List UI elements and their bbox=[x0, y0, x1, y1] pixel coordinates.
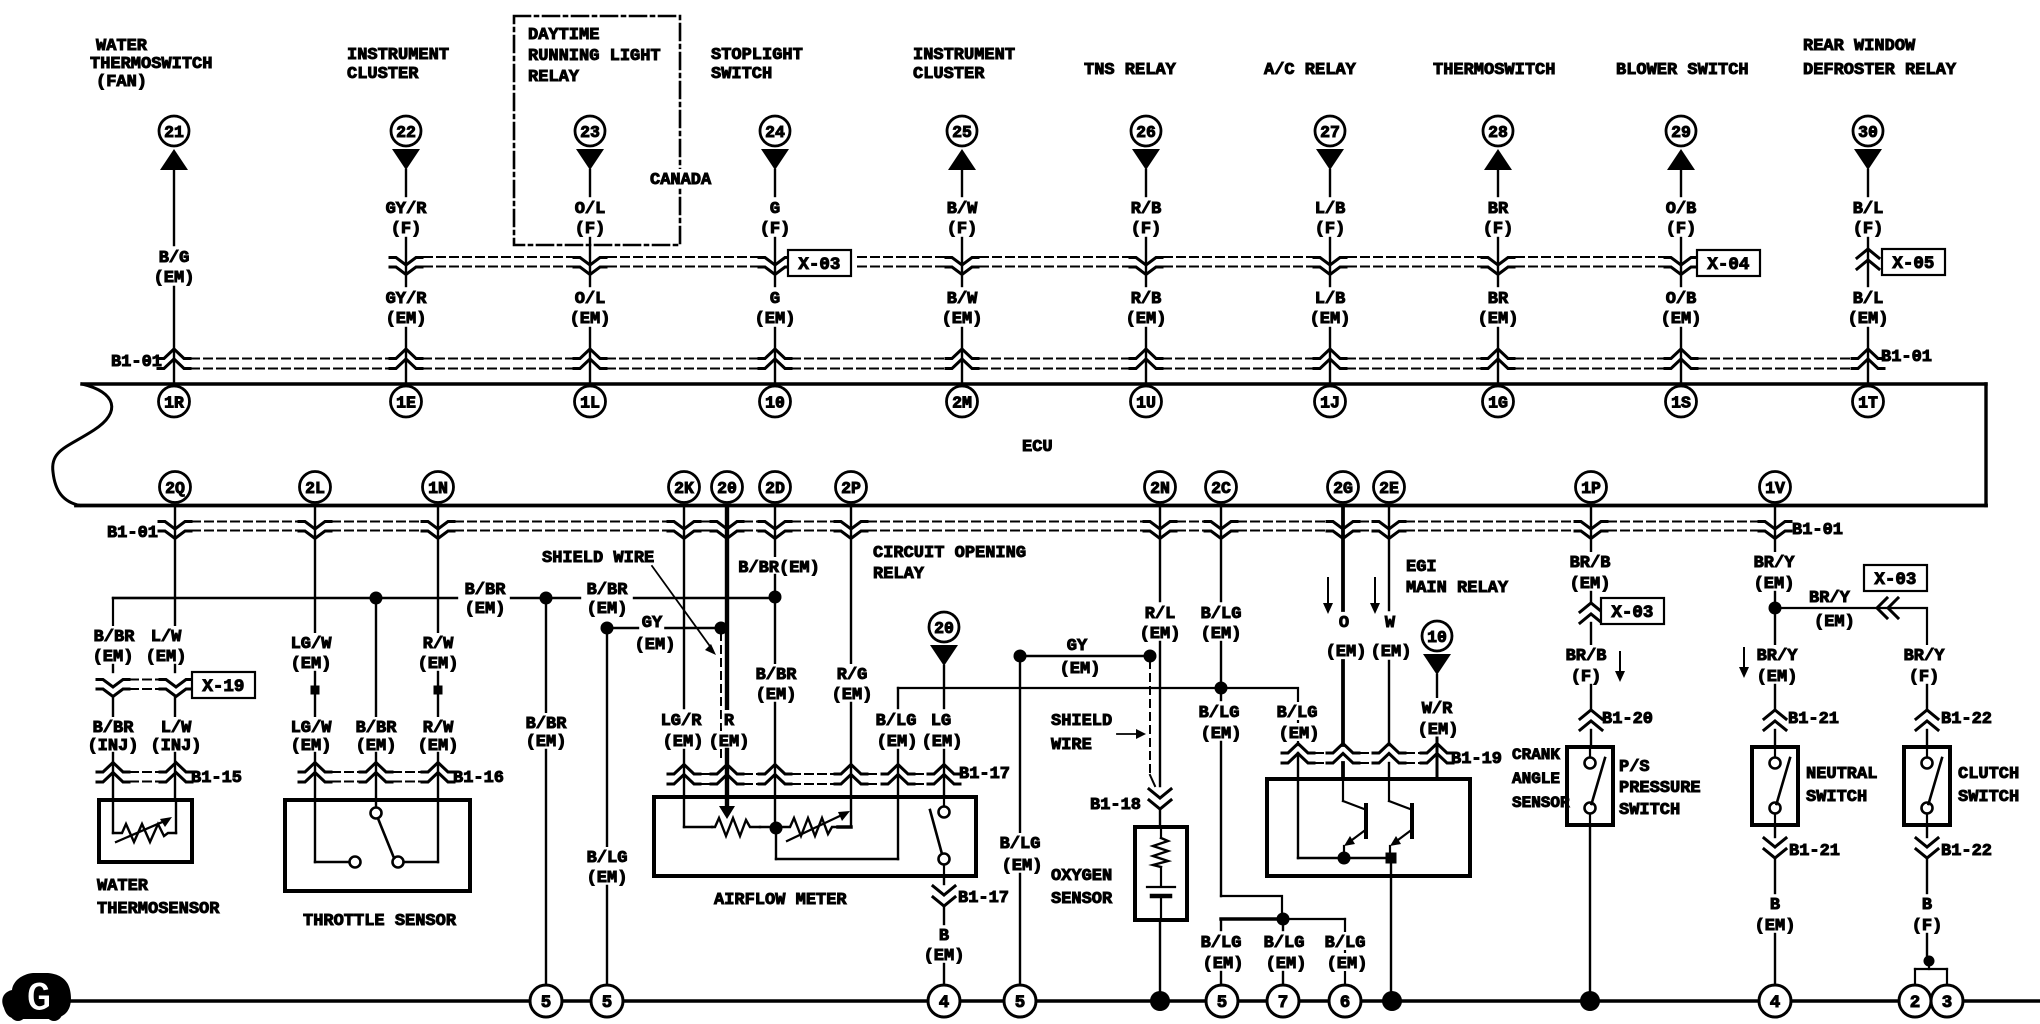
svg-text:B1-01: B1-01 bbox=[1881, 348, 1932, 367]
svg-text:SWITCH: SWITCH bbox=[711, 65, 772, 84]
svg-text:CANADA: CANADA bbox=[650, 171, 712, 190]
svg-text:B/LG: B/LG bbox=[1000, 835, 1041, 854]
svg-text:G: G bbox=[770, 200, 780, 219]
arrow terminal 28 bbox=[1484, 149, 1512, 170]
pin 1V bbox=[1760, 472, 1791, 503]
svg-text:(EM): (EM) bbox=[1279, 725, 1320, 744]
component label DAYTIME RUNNING LIGHT RELAY bbox=[528, 26, 661, 87]
svg-text:(EM): (EM) bbox=[1266, 955, 1307, 974]
ground node 5 at x=607 bbox=[591, 985, 623, 1017]
svg-text:(F): (F) bbox=[1483, 220, 1514, 239]
wire 2D B/BR mid bbox=[774, 575, 776, 597]
svg-text:EGI: EGI bbox=[1406, 558, 1437, 577]
svg-text:TNS RELAY: TNS RELAY bbox=[1084, 61, 1177, 80]
arrow terminal 23 bbox=[576, 149, 604, 170]
svg-text:CRANK: CRANK bbox=[1512, 746, 1560, 764]
value label BR/Y (F) clutch bbox=[1902, 645, 1947, 687]
value label BR/Y (EM) link bbox=[1807, 587, 1857, 632]
net label B1-17 lower bbox=[958, 889, 1009, 908]
junction clutch split bbox=[1924, 956, 1935, 967]
wire G (EM) column 24 bbox=[774, 328, 776, 384]
value label R/B (EM) bbox=[1126, 290, 1167, 329]
svg-text:THERMOSWITCH: THERMOSWITCH bbox=[90, 55, 212, 74]
svg-text:RUNNING LIGHT: RUNNING LIGHT bbox=[528, 47, 661, 66]
wire B/L (EM) column 30 bbox=[1867, 328, 1869, 384]
wire neutral to ground 4 bbox=[1774, 934, 1776, 985]
wire 2G O thick upper bbox=[1341, 508, 1345, 611]
svg-text:O/L: O/L bbox=[575, 200, 606, 219]
svg-text:(EM): (EM) bbox=[1060, 660, 1101, 679]
wire into clutch switch bbox=[1926, 730, 1928, 747]
wire W into crank box bbox=[1388, 763, 1390, 779]
svg-text:(F): (F) bbox=[1315, 220, 1346, 239]
svg-text:(EM): (EM) bbox=[465, 600, 506, 619]
wire B/LG drop to ground 5c bbox=[1019, 656, 1021, 832]
wire L/B (F) column 27 bbox=[1329, 170, 1331, 196]
wire G (F) column 24 bbox=[774, 170, 776, 196]
svg-text:B1-22: B1-22 bbox=[1941, 842, 1992, 861]
wire BR/B mid3 bbox=[1590, 685, 1592, 708]
svg-text:B/LG: B/LG bbox=[1199, 704, 1240, 723]
svg-text:B1-21: B1-21 bbox=[1788, 710, 1839, 729]
svg-text:B/BR: B/BR bbox=[587, 581, 629, 600]
wire R/L middle bbox=[1159, 642, 1161, 786]
wire LG into B1-17 bbox=[943, 750, 945, 797]
pin 2N bbox=[1145, 472, 1176, 503]
pin 20 bbox=[712, 472, 743, 503]
value label B (F) clutch bbox=[1912, 896, 1943, 936]
svg-text:(F): (F) bbox=[1131, 220, 1162, 239]
wire B/LG 2C lower bbox=[1220, 688, 1222, 700]
value label BR/B (F) bbox=[1564, 645, 1609, 687]
svg-text:OXYGEN: OXYGEN bbox=[1051, 867, 1112, 886]
wire B/LG drop lower c bbox=[1019, 874, 1021, 985]
pin 2D bbox=[760, 472, 791, 503]
wire LG/R into B1-17 bbox=[683, 750, 685, 797]
svg-text:B1-18: B1-18 bbox=[1090, 796, 1141, 815]
component label THROTTLE SENSOR bbox=[303, 912, 457, 931]
svg-text:B/BR(EM): B/BR(EM) bbox=[738, 559, 820, 578]
value label B/LG (EM) airflow bbox=[874, 710, 920, 752]
connector chevrons B1-01 upper column 24 bbox=[759, 349, 791, 369]
wire airflow B/LG inside bbox=[897, 797, 899, 859]
svg-text:10: 10 bbox=[1427, 628, 1447, 647]
svg-text:X-19: X-19 bbox=[202, 677, 244, 697]
svg-text:B/BR: B/BR bbox=[465, 581, 507, 600]
component label REAR WINDOW DEFROSTER RELAY bbox=[1803, 37, 1957, 80]
wire BR/B mid1 bbox=[1590, 592, 1592, 601]
svg-text:(F): (F) bbox=[947, 220, 978, 239]
svg-text:X-03: X-03 bbox=[798, 255, 840, 275]
wire B/LG crank branch bbox=[1221, 688, 1298, 745]
connector chevrons B1-20 bbox=[1580, 710, 1602, 730]
wire R/W into B1-16 bbox=[437, 753, 439, 800]
value label W (EM) bbox=[1369, 612, 1414, 662]
connector chevrons B1-17 R bbox=[711, 765, 743, 785]
svg-text:ECU: ECU bbox=[1022, 438, 1053, 457]
junction B/BR at x546 bbox=[540, 592, 553, 605]
svg-text:ANGLE: ANGLE bbox=[1512, 770, 1560, 788]
value label B/W (F) bbox=[947, 200, 978, 239]
connector chevrons B1-01 upper column 28 bbox=[1482, 349, 1514, 369]
node 26 circle bbox=[1131, 116, 1161, 146]
wire B/BR below junction bbox=[774, 597, 776, 663]
connector chevrons B1-17 B/LG bbox=[882, 765, 914, 785]
wire R/W middle bbox=[437, 672, 439, 685]
value label B/LG (EM) g6 bbox=[1323, 932, 1370, 974]
svg-text:BR/Y: BR/Y bbox=[1904, 647, 1946, 666]
svg-text:GY/R: GY/R bbox=[386, 290, 428, 309]
svg-text:(EM): (EM) bbox=[1002, 857, 1043, 876]
label CANADA bbox=[648, 169, 713, 190]
svg-text:CIRCUIT OPENING: CIRCUIT OPENING bbox=[873, 544, 1026, 563]
svg-text:29: 29 bbox=[1671, 123, 1691, 142]
component label BLOWER SWITCH bbox=[1616, 61, 1749, 80]
wire B to ground 4 bbox=[943, 964, 945, 985]
svg-text:THERMOSENSOR: THERMOSENSOR bbox=[97, 900, 220, 919]
connector chevrons X row column 29 bbox=[1665, 258, 1697, 275]
node 29 circle bbox=[1666, 116, 1696, 146]
svg-text:1S: 1S bbox=[1671, 393, 1691, 412]
connector box X-05 bbox=[1882, 249, 1945, 275]
wire B/BR (EM) drop lower bbox=[545, 750, 547, 985]
value label O/B (EM) bbox=[1661, 290, 1702, 329]
wire L/B (EM) column 27 bbox=[1329, 328, 1331, 384]
svg-text:INSTRUMENT: INSTRUMENT bbox=[347, 46, 449, 65]
node 20 circle (airflow LG) bbox=[929, 612, 959, 642]
net B1-17 dashed link bbox=[701, 774, 927, 784]
svg-text:CLUSTER: CLUSTER bbox=[347, 65, 419, 84]
shield wire dashed drop a bbox=[720, 633, 722, 762]
wire B/LG 2C middle bbox=[1220, 642, 1222, 688]
connector box X-03 (clutch) bbox=[1864, 565, 1927, 591]
value label LG (EM) airflow bbox=[920, 710, 965, 752]
water thermosensor box bbox=[99, 800, 192, 862]
value label GY (EM) a bbox=[633, 612, 678, 655]
value label GY (EM) b bbox=[1058, 635, 1103, 679]
svg-text:O: O bbox=[1339, 614, 1349, 633]
node 10 circle bbox=[1422, 621, 1452, 651]
value label O/B (F) bbox=[1666, 200, 1697, 239]
wire R/G into B1-17 bbox=[850, 703, 852, 797]
connector chevrons B1-01 upper column 22 bbox=[390, 349, 422, 369]
battery cell oxygen sensor bbox=[1147, 887, 1175, 920]
svg-text:2G: 2G bbox=[1333, 479, 1353, 498]
wire B/BR into B1-17 bbox=[774, 703, 776, 797]
crank angle sensor box bbox=[1267, 779, 1470, 876]
connector chevrons B1-19 W/R bbox=[1421, 744, 1453, 764]
wire BR/Y down neutral bbox=[1774, 608, 1776, 644]
wire BR (F) column 28 bbox=[1497, 170, 1499, 196]
svg-text:G: G bbox=[770, 290, 780, 309]
net B1-19 dashed link bbox=[1315, 753, 1420, 763]
svg-text:BR/Y: BR/Y bbox=[1809, 589, 1851, 608]
svg-text:B/LG: B/LG bbox=[876, 712, 917, 731]
connector box X-19 bbox=[192, 672, 255, 698]
connector chevrons B1-19 W bbox=[1373, 744, 1405, 764]
wire column 25 middle bbox=[961, 238, 963, 286]
wire B (EM) segment bbox=[943, 906, 945, 924]
connector chevrons B1-01 lower pin 2Q bbox=[159, 522, 191, 539]
svg-text:21: 21 bbox=[164, 123, 184, 142]
wire B/LG split left drop bbox=[1220, 919, 1222, 930]
value label O/L (F) bbox=[575, 200, 606, 239]
ground symbol G (car) bbox=[2, 973, 71, 1023]
wire 1N R/W upper bbox=[437, 508, 439, 633]
wire throttle R/W inside bbox=[404, 800, 438, 862]
svg-text:5: 5 bbox=[602, 993, 613, 1013]
svg-text:B/LG: B/LG bbox=[1264, 934, 1305, 953]
wire airflow R/G inside bbox=[850, 797, 852, 827]
svg-text:W/R: W/R bbox=[1422, 700, 1453, 719]
value label R (EM) bbox=[707, 710, 752, 752]
wire 2L LG/W upper bbox=[314, 508, 316, 633]
pin 1N bbox=[423, 472, 454, 503]
wire airflow mid drop bbox=[776, 828, 898, 859]
pin 1G bbox=[1483, 386, 1514, 417]
value label L/W (INJ) bbox=[149, 717, 204, 756]
wire clutch to split bbox=[1926, 934, 1928, 957]
svg-text:SENSOR: SENSOR bbox=[1051, 890, 1113, 909]
component label TNS RELAY bbox=[1084, 61, 1177, 80]
value label LG/R (EM) bbox=[659, 710, 706, 752]
junction crank emitter 1 bbox=[1338, 852, 1351, 865]
svg-text:(F): (F) bbox=[1909, 668, 1940, 687]
node 25 circle bbox=[947, 116, 977, 146]
wire column 30 middle bbox=[1867, 238, 1869, 286]
wire B/L (F) column 30 bbox=[1867, 170, 1869, 196]
wire B/BR throttle branch bbox=[375, 598, 377, 716]
svg-text:B1-01: B1-01 bbox=[107, 524, 158, 543]
throttle sensor box bbox=[285, 800, 470, 891]
connector chevrons B1-01 upper column 23 bbox=[574, 349, 606, 369]
svg-text:(EM): (EM) bbox=[1310, 310, 1351, 329]
svg-text:A/C RELAY: A/C RELAY bbox=[1264, 61, 1357, 80]
wire B/LG feeder horizontal bbox=[898, 687, 1221, 689]
wire airflow R thick inside bbox=[725, 797, 729, 806]
arrow terminal 25 bbox=[948, 149, 976, 170]
connector chevrons X row column 28 bbox=[1482, 258, 1514, 275]
wire B/BR horizontal feeder (left end corner) bbox=[113, 598, 175, 626]
svg-text:1U: 1U bbox=[1136, 393, 1156, 412]
value label B/LG (EM) crank bbox=[1275, 702, 1322, 744]
wire GY/R (F) column 22 bbox=[405, 170, 407, 196]
ECU label bbox=[1022, 438, 1053, 457]
value label W/R (EM) bbox=[1416, 698, 1461, 740]
value label GY/R (F) bbox=[386, 200, 428, 239]
value label R/B (F) bbox=[1131, 200, 1162, 239]
net B1-01 dashed bus (upper) bbox=[191, 359, 1851, 369]
arrow terminal 22 bbox=[392, 149, 420, 170]
svg-text:B/LG: B/LG bbox=[1201, 605, 1242, 624]
value label R/L (EM) bbox=[1138, 603, 1183, 644]
connector chevrons X row column 22 bbox=[390, 258, 422, 275]
net label B1-01 (upper left) bbox=[111, 353, 162, 372]
value label B/BR (EM) feeder 1 bbox=[463, 579, 508, 619]
wire BR (EM) column 28 bbox=[1497, 328, 1499, 384]
junction airflow mid bbox=[770, 822, 783, 835]
svg-text:(FAN): (FAN) bbox=[96, 73, 147, 92]
svg-text:B1-22: B1-22 bbox=[1941, 710, 1992, 729]
net label B1-21 upper bbox=[1788, 710, 1839, 729]
value label L/B (EM) bbox=[1310, 290, 1351, 329]
pin 2M bbox=[947, 386, 978, 417]
connector chevrons X-19 right bbox=[160, 680, 192, 697]
connector chevrons X-05 column 30 bbox=[1857, 249, 1879, 269]
svg-text:(EM): (EM) bbox=[570, 310, 611, 329]
value label B (EM) bbox=[924, 927, 965, 966]
connector chevrons B1-01 upper column 27 bbox=[1314, 349, 1346, 369]
svg-text:GY: GY bbox=[642, 614, 663, 633]
svg-text:(F): (F) bbox=[1666, 220, 1697, 239]
arrow terminal 29 bbox=[1667, 149, 1695, 170]
svg-text:CLUTCH: CLUTCH bbox=[1958, 765, 2019, 784]
value label B/LG (EM) 2C bbox=[1199, 603, 1244, 644]
wire B/LG into B1-19 bbox=[1297, 753, 1299, 779]
svg-text:(EM): (EM) bbox=[1661, 310, 1702, 329]
svg-text:(EM): (EM) bbox=[1126, 310, 1167, 329]
net label B1-15 bbox=[191, 769, 242, 788]
wire B/BR to X-19 bbox=[112, 665, 114, 672]
component label CLUTCH SWITCH bbox=[1958, 765, 2019, 807]
wire B/LG split mid drop bbox=[1282, 919, 1284, 930]
connector box X-03 (top) bbox=[788, 250, 851, 276]
wire LG/W lower bbox=[314, 695, 316, 716]
wire W/R into B1-19 bbox=[1436, 738, 1439, 779]
svg-text:THROTTLE SENSOR: THROTTLE SENSOR bbox=[303, 912, 457, 931]
net X connector dashed bus (top row) bbox=[424, 257, 1670, 267]
value label B/LG (EM) x1020 bbox=[998, 833, 1045, 876]
wire B/LG split bar bbox=[1221, 919, 1345, 985]
component label A/C RELAY bbox=[1264, 61, 1357, 80]
wire B/BR (EM) horizontal feeder bbox=[113, 597, 775, 599]
value label G (EM) bbox=[755, 290, 796, 329]
component label OXYGEN SENSOR bbox=[1051, 867, 1113, 909]
junction B/LG split bbox=[1277, 913, 1290, 926]
wire crank output bbox=[1390, 858, 1392, 876]
wire clutch split bracket bbox=[1915, 961, 1947, 985]
wire 1V BR/Y upper bbox=[1774, 508, 1776, 552]
svg-text:(EM): (EM) bbox=[755, 310, 796, 329]
resistor oxygen sensor bbox=[1153, 827, 1168, 886]
svg-text:2: 2 bbox=[1910, 993, 1921, 1013]
value label B/LG (EM) 2C lower bbox=[1197, 702, 1244, 744]
value label B (EM) neutral bbox=[1755, 896, 1796, 936]
flow arrow O bbox=[1323, 578, 1333, 614]
value label B/LG (EM) g5 bbox=[1199, 932, 1246, 974]
wire B/BR (EM) drop to ground 5 bbox=[545, 598, 547, 712]
svg-text:O/B: O/B bbox=[1666, 290, 1697, 309]
wire column 24 middle bbox=[774, 238, 776, 286]
wire R/W lower bbox=[437, 695, 439, 716]
wire GY (EM) link b bbox=[1020, 655, 1150, 657]
wire B/LG drop to ground 5b bbox=[606, 628, 608, 846]
svg-text:23: 23 bbox=[580, 123, 600, 142]
callout SHIELD WIRE (oxygen) bbox=[1049, 710, 1146, 755]
svg-text:1V: 1V bbox=[1765, 479, 1785, 498]
svg-text:O/L: O/L bbox=[575, 290, 606, 309]
svg-text:1P: 1P bbox=[1581, 479, 1601, 498]
value label L/B (F) bbox=[1315, 200, 1346, 239]
component label AIRFLOW METER bbox=[714, 891, 847, 910]
value label LG/W (EM) upper bbox=[289, 633, 334, 674]
wire O/L (F) column 23 bbox=[589, 170, 591, 196]
svg-text:(EM): (EM) bbox=[1203, 955, 1244, 974]
transistor Q1 (crank) bbox=[1343, 779, 1366, 852]
svg-text:2M: 2M bbox=[952, 393, 972, 412]
component label THERMOSWITCH bbox=[1433, 61, 1555, 80]
connector chevrons B1-01 upper column 25 bbox=[946, 349, 978, 369]
ground node 3 at x=1947 bbox=[1931, 985, 1963, 1017]
svg-text:3: 3 bbox=[1942, 993, 1953, 1013]
wire B (F) clutch bbox=[1926, 858, 1928, 893]
wire BR/Y into B1-21 bbox=[1774, 685, 1776, 708]
value label LG/W (EM) lower bbox=[289, 717, 334, 756]
connector chevrons B1-01 lower pin 2D bbox=[759, 522, 791, 539]
pin 1L bbox=[575, 386, 606, 417]
ground node 5 at x=1222 bbox=[1206, 985, 1238, 1017]
svg-text:B/L: B/L bbox=[1853, 290, 1884, 309]
svg-text:(F): (F) bbox=[391, 220, 422, 239]
svg-text:4: 4 bbox=[1770, 993, 1781, 1013]
svg-text:B/LG: B/LG bbox=[587, 849, 628, 868]
pin 1P bbox=[1576, 472, 1607, 503]
wire W lower bbox=[1388, 661, 1390, 745]
svg-text:(EM): (EM) bbox=[291, 737, 332, 756]
wire R/B (F) column 26 bbox=[1145, 170, 1147, 196]
connector chevrons B1-01 upper column 21 bbox=[158, 349, 190, 369]
wire R thick into B1-17 bbox=[725, 750, 729, 797]
junction GY b left bbox=[1014, 650, 1027, 663]
pin 2G bbox=[1328, 472, 1359, 503]
wire GY/R (EM) column 22 bbox=[405, 328, 407, 384]
ground junction P/S bbox=[1580, 991, 1600, 1011]
svg-text:SENSOR: SENSOR bbox=[1512, 794, 1570, 812]
connector box X-03 (1P) bbox=[1601, 598, 1664, 624]
ground node 7 at x=1283 bbox=[1267, 985, 1299, 1017]
connector chevrons B1-19 B/LG bbox=[1282, 744, 1314, 764]
wire throttle LG/W inside bbox=[315, 800, 349, 862]
pin 1J bbox=[1315, 386, 1346, 417]
svg-text:1J: 1J bbox=[1320, 393, 1340, 412]
wire B/LG drop from feeder bbox=[897, 688, 899, 708]
svg-text:1T: 1T bbox=[1858, 393, 1878, 412]
svg-text:(F): (F) bbox=[1571, 668, 1602, 687]
value label G (F) bbox=[760, 200, 791, 239]
connector chevrons X row column 23 bbox=[574, 258, 606, 275]
switch clutch switch bbox=[1904, 747, 1950, 825]
wire B/W (EM) column 25 bbox=[961, 328, 963, 384]
svg-text:PRESSURE: PRESSURE bbox=[1619, 779, 1701, 798]
junction GY left bbox=[601, 622, 614, 635]
flow arrow W bbox=[1370, 578, 1380, 614]
value label B/L (F) bbox=[1853, 200, 1884, 239]
switch throttle sensor bbox=[350, 808, 404, 868]
ground node 5 at x=546 bbox=[530, 985, 562, 1017]
svg-text:2L: 2L bbox=[305, 479, 325, 498]
wire column 22 middle bbox=[405, 238, 407, 286]
wire P/S switch to ground bbox=[1589, 825, 1591, 1001]
net label B1-22 lower bbox=[1941, 842, 1992, 861]
svg-text:(EM): (EM) bbox=[1478, 310, 1519, 329]
wire 2N R/L upper bbox=[1159, 508, 1161, 602]
svg-text:B/L: B/L bbox=[1853, 200, 1884, 219]
svg-text:X-03: X-03 bbox=[1611, 603, 1653, 623]
value label B/BR (EM) feeder 2 bbox=[585, 579, 630, 619]
net label B1-17 upper bbox=[959, 765, 1010, 784]
junction B/LG feeder bbox=[1215, 682, 1228, 695]
net B1-15 dashed link bbox=[130, 772, 166, 782]
